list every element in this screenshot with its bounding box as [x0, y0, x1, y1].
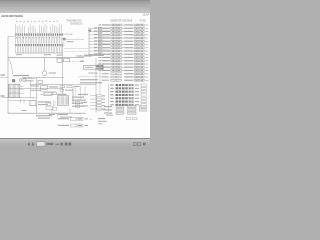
- alternator label above: [58, 94, 67, 95]
- wire row to terminal 1: [90, 95, 96, 97]
- battery BT2 terminal circle: [23, 79, 26, 82]
- ladder feed arrow mark: [88, 30, 91, 32]
- battery label text row 2: [24, 78, 35, 79]
- terminal block dark cell 1: [97, 65, 100, 67]
- wire y92: [40, 91, 56, 93]
- connector CN3 small dark box: [63, 38, 66, 41]
- toolbar zoom-out icon: [61, 143, 63, 146]
- ladder rung 2 wire: [89, 31, 94, 33]
- table col1 row 16: pin boxes only: [102, 73, 122, 75]
- option connector label text: [67, 41, 74, 42]
- relay K2 box: [64, 59, 70, 62]
- junction label 2: [65, 90, 73, 91]
- ladder rung 7 wire: [89, 47, 94, 49]
- table col1 row 2: code text + pin boxes: [98, 27, 123, 29]
- table col1 row 7: code text + pin boxes: [98, 44, 123, 46]
- relay K1 label above: [57, 55, 63, 56]
- speck left of bottom line: [22, 110, 27, 111]
- wire frame left vertical: [7, 37, 9, 114]
- table col2 row 6: code text + pin boxes: [124, 40, 148, 42]
- ladder rung 1 wire: [89, 27, 94, 29]
- table col2 row 11: code text + pin boxes: [124, 57, 148, 59]
- table col1 row 3: code text + pin boxes: [98, 31, 123, 33]
- connector row CN1 housings (upper row of terminals): [15, 33, 63, 35]
- text speck above note: [106, 115, 113, 116]
- toolbar fit icon: [69, 143, 72, 146]
- ladder rung 3 terminal box: [98, 34, 102, 36]
- toolbar page count text: [47, 143, 54, 145]
- wire row to terminal 2: [90, 98, 96, 100]
- text row 2: [72, 100, 86, 101]
- ladder rung 9 wire: [89, 53, 94, 55]
- ladder rung 5 label: [94, 40, 98, 41]
- pin tick cluster near S2: [53, 101, 55, 107]
- toolbar separator dash: [56, 144, 59, 145]
- toolbar next-page arrow: [32, 142, 34, 146]
- connector row CN2 housings (lower row of terminals): [15, 44, 63, 46]
- table col1 row 8: code text + pin boxes: [98, 47, 123, 49]
- ladder rung 9 terminal box: [98, 53, 102, 55]
- battery block hatched body: [9, 84, 20, 97]
- connector block CN1 pin labels (rotated text ticks): [15, 23, 61, 33]
- wire leaders from ladder to table: [102, 30, 110, 54]
- table dark row 4: filled cells: [110, 94, 146, 96]
- wire vertical x85: [84, 86, 86, 96]
- terminal block dark cell 3: [97, 68, 100, 70]
- wire main bus horizontal: [8, 56, 84, 58]
- wire across to ladder y51.2: [64, 50, 88, 52]
- table bottom row 3: wide boxes: [104, 112, 136, 114]
- ladder rung 2 terminal box: [98, 31, 102, 33]
- wire row to terminal 4: [90, 105, 96, 107]
- table col1 row 5: code text + pin boxes: [98, 37, 123, 39]
- text row long y55: [84, 55, 104, 56]
- alternator block hatched: [57, 96, 68, 105]
- text row 4: [72, 106, 85, 107]
- table col2 row 9: code text + pin boxes: [124, 50, 148, 52]
- table col2 row 3: code text + pin boxes: [124, 31, 148, 33]
- wire mid bus horizontal: [30, 84, 96, 86]
- table col2 row 17: code text + pin boxes: [124, 76, 148, 78]
- note text bottom right: [98, 118, 105, 119]
- label right of terminal x81 y105: [81, 105, 88, 106]
- ladder rung 1 label: [94, 27, 98, 28]
- ladder rung 5 terminal box: [98, 40, 102, 42]
- terminal box 2: [97, 98, 102, 100]
- switch S1 label row 2: [38, 104, 48, 105]
- resistor R1 box: [38, 80, 42, 83]
- ladder rung 7 terminal box: [98, 47, 102, 49]
- fuse box F2: [53, 92, 57, 94]
- wire bus under connector block: [15, 52, 62, 54]
- wire left edge stub y76: [0, 76, 8, 78]
- table col1 row 12: code text + pin boxes: [98, 60, 123, 62]
- ladder rung 8 wire: [89, 50, 94, 52]
- small box pair below table row A: [127, 118, 132, 120]
- table col2 row 16: code text + pin boxes: [124, 73, 148, 75]
- table bottom row 1: wide boxes: [104, 106, 147, 108]
- controller U1 outlined box: [84, 66, 97, 70]
- table col1 row 10: code text + pin boxes: [98, 53, 123, 55]
- table col1 row 9: code text + pin boxes: [98, 50, 123, 52]
- table col1 row 18: pin boxes only: [102, 79, 122, 81]
- wire ground bus y97.6: [2, 97, 36, 99]
- text rows below bottom line x60: [60, 117, 72, 118]
- text specks row y83: [80, 82, 102, 83]
- wire row to terminal 5: [90, 108, 96, 110]
- table dark row 1: filled cells: [110, 84, 146, 86]
- ladder rung 9 label: [94, 53, 98, 54]
- battery BT1 terminal circle: [19, 79, 22, 82]
- terminal block dark cell 4: [100, 68, 103, 70]
- table col2 row 14: code text + pin boxes: [124, 66, 148, 68]
- wire vertical x80.5: [80, 86, 82, 100]
- label under block right: [44, 54, 51, 55]
- junction box JB3: [60, 89, 64, 91]
- ladder rung 6 wire: [89, 44, 94, 46]
- connector CN3 pin ticks: [62, 41, 64, 46]
- text row x78 y94.5: [78, 94, 88, 95]
- battery text row 4: [25, 80, 34, 81]
- note text under bottom frame line 2: [38, 118, 50, 119]
- table col2 row 15: code text + pin boxes: [124, 70, 148, 72]
- toolbar prev-page arrow: [27, 142, 29, 146]
- toolbar page navigation icons: [0, 0, 150, 150]
- wire double vertical x72: [72, 86, 74, 104]
- wire dashed from relay K2: [70, 60, 84, 62]
- ladder rung 3 label: [94, 34, 98, 35]
- wire vertical x108.5: [108, 84, 110, 112]
- switch S1 label rows: [38, 101, 51, 102]
- table col2 row 12: code text + pin boxes: [124, 60, 148, 62]
- table col2 row 1: code text + pin boxes: [124, 24, 148, 26]
- toolbar right icon 2: [138, 143, 141, 146]
- ladder rung 4 terminal box: [98, 37, 102, 39]
- wire y94.5: [40, 93, 62, 95]
- junction box JB2: [67, 86, 72, 88]
- label right of terminal x81 y102: [81, 102, 87, 103]
- relay K3 label: [49, 86, 58, 87]
- text specks row y80: [80, 79, 98, 80]
- sensor box pair row1: [46, 103, 51, 105]
- key switch contact ticks: [21, 99, 25, 103]
- solenoid M1 circle: [42, 71, 47, 76]
- ladder rung 5 wire: [89, 40, 94, 42]
- table col1 row 17: pin boxes only: [102, 76, 122, 78]
- note text bottom right 2: [98, 121, 107, 122]
- ladder rung 3 wire: [89, 34, 94, 36]
- junction box JB1: [60, 86, 65, 88]
- label small x80 y61: [80, 61, 84, 62]
- terminal tag 1: [102, 95, 105, 96]
- terminal tag 5: [102, 109, 105, 110]
- relay K3 box: [41, 86, 48, 89]
- ladder rung 7 label: [94, 47, 98, 48]
- table dark row 7: filled cells: [110, 104, 146, 106]
- fuse F1 dark box: [12, 79, 15, 82]
- pin number specks above CN2: [16, 37, 60, 38]
- text rows right of alternator: [72, 97, 84, 98]
- terminal box 4: [97, 105, 102, 107]
- wire vertical x100 to table: [99, 62, 101, 94]
- toolbar zoom-in icon: [65, 143, 68, 146]
- table col2 row 10: code text + pin boxes: [124, 53, 148, 55]
- small box S2: [53, 108, 57, 110]
- table col2 row 7: code text + pin boxes: [124, 44, 148, 46]
- terminal tag 3: [102, 102, 105, 103]
- terminal box 1: [97, 95, 102, 97]
- legend speck near line: [49, 114, 55, 115]
- text speck row y85 left: [31, 85, 39, 86]
- wire vertical x30: [29, 80, 31, 98]
- ladder rung 2 label: [94, 31, 98, 32]
- wire droppers to bottom line: [52, 108, 70, 113]
- legend feed wire vertical: [57, 113, 59, 117]
- wire to ignition switch: [8, 100, 30, 102]
- table col1 row 1: code text + pin boxes: [98, 24, 123, 26]
- wire bottom frame horizontal: [8, 112, 86, 114]
- terminal tag 4: [102, 105, 105, 106]
- table dark row 5: filled cells: [110, 97, 146, 99]
- wire stubs from battery block: [20, 86, 24, 93]
- table col2 row 8: code text + pin boxes: [124, 47, 148, 49]
- table col1 row 4: code text + pin boxes: [98, 34, 123, 36]
- ground label left edge: [0, 95, 4, 97]
- note text bottom right 3: [98, 122, 103, 125]
- text speck row y90 left: [31, 90, 41, 91]
- wire frame top stub: [8, 36, 15, 38]
- wire vertical trunk x62: [62, 44, 64, 94]
- legend row 2: [58, 124, 88, 127]
- ladder rung 6 terminal box: [98, 44, 102, 46]
- wire dash column x75: [74, 88, 76, 97]
- text row 3: [72, 103, 83, 104]
- wire horizontal y77.5: [34, 77, 64, 79]
- terminal tag 2: [102, 99, 105, 100]
- table col2 row 2: code text + pin boxes: [124, 27, 148, 29]
- wire dashed y76.5: [78, 76, 104, 78]
- toolbar right icon 1: [133, 143, 136, 146]
- ladder rung 8 terminal box: [98, 50, 102, 52]
- ladder rung 4 wire: [89, 37, 94, 39]
- table col1 row 15: code text + pin boxes: [98, 70, 123, 72]
- battery label text rows: [13, 75, 29, 76]
- terminal box 3: [97, 101, 102, 103]
- ladder rung 8 label: [94, 50, 98, 51]
- table col2 row 13: code text + pin boxes: [124, 63, 148, 65]
- relay K1 box: [57, 58, 62, 62]
- wire center drop to solenoid: [44, 57, 46, 71]
- text rows below bottom line x58: [58, 114, 68, 115]
- label under block left: [16, 54, 22, 55]
- table col1 row 6: code text + pin boxes: [98, 40, 123, 42]
- terminal box 5: [97, 108, 102, 110]
- junction label: [74, 86, 80, 87]
- wire harness verticals below CN2: [16, 47, 61, 53]
- wire to option connector: [66, 38, 85, 40]
- table dark row 6: filled cells: [110, 101, 146, 103]
- table col2 row 5: code text + pin boxes: [124, 37, 148, 39]
- note text under bottom frame line: [36, 115, 52, 116]
- table col2 row 18: code text + pin boxes: [124, 79, 148, 81]
- wire across to ladder y48.6: [64, 48, 88, 50]
- wire harness curve to battery group: [8, 58, 13, 75]
- battery text row 3: [22, 77, 32, 78]
- table dark row 2: filled cells: [110, 87, 146, 89]
- wire vertical trunk x36: [35, 78, 37, 114]
- table bottom row 2: wide boxes: [104, 109, 147, 111]
- wire bottom right stub: [98, 109, 104, 111]
- wire ladder trunk vertical: [88, 28, 90, 58]
- node label left edge y75: [0, 74, 5, 75]
- table col1 row 13: code text + pin boxes: [98, 63, 123, 65]
- ladder rung 6 label: [94, 44, 98, 45]
- switch S1 box: [30, 101, 36, 106]
- table col2 row 4: code text + pin boxes: [124, 34, 148, 36]
- wire right frame vertical x96: [95, 58, 97, 113]
- terminal box x75 y105: [76, 105, 80, 107]
- toolbar page field: [37, 142, 46, 146]
- wire lower bus horizontal: [20, 88, 63, 90]
- ladder rung 4 label: [94, 37, 98, 38]
- U1 internal label: [85, 67, 93, 68]
- terminal block dark cell 2: [100, 65, 103, 67]
- legend row 1: [58, 117, 92, 120]
- table col1 row 14: code text + pin boxes: [98, 66, 123, 68]
- wire row to terminal 3: [90, 101, 96, 103]
- toolbar right icon 3: [143, 142, 146, 145]
- diode box D1: [44, 93, 52, 96]
- small box pair below table row B: [133, 118, 138, 120]
- wire harness verticals below CN1: [16, 36, 61, 44]
- table col1 row 11: code text + pin boxes: [98, 57, 123, 59]
- ladder rung 1 terminal box: [98, 27, 102, 29]
- table dark row 3: filled cells: [110, 91, 146, 93]
- sensor box pair row2: [46, 107, 53, 109]
- terminal box x75 y101: [76, 102, 80, 104]
- tiny label specks above connector block: [16, 21, 58, 23]
